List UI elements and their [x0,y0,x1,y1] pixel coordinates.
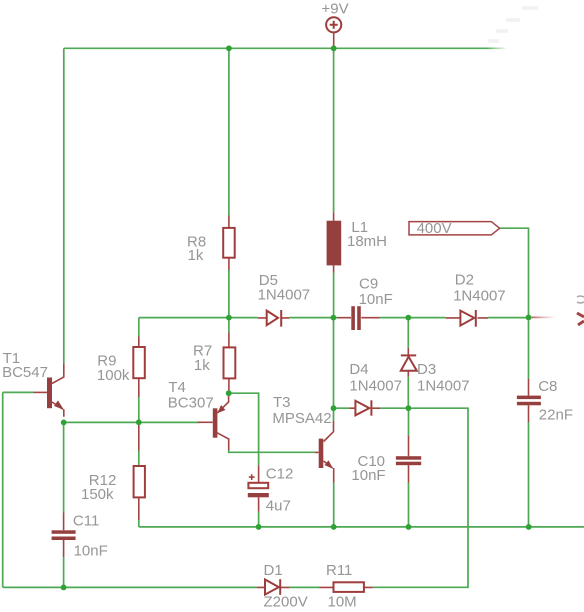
wire J9 to C12 top [229,393,259,465]
wire R7 column [228,318,230,333]
node J2 rail/+9V/L1 [331,45,337,51]
svg-text:D1: D1 [264,562,283,579]
wire D3 bottom [407,377,409,408]
node J11 D4/D3/C10/feedback [406,405,412,411]
node J4 L1/C9/bus [331,315,337,321]
svg-text:10nF: 10nF [74,543,108,560]
svg-text:D4: D4 [349,361,368,378]
node J6 D2/400V/C8 [526,315,532,321]
wire 400V flag to C8 column [500,228,529,317]
svg-text:1N4007: 1N4007 [258,287,311,304]
wire far-left vertical [2,392,4,587]
wire cropped pin marks at right edge [577,296,584,325]
capacitor C8 [517,378,573,423]
node J5 C9/D3 [405,315,411,321]
wire feedback loop J11 right, down, to R11 [373,408,468,587]
capacitor C11 [52,513,108,560]
svg-text:1k: 1k [194,357,210,374]
svg-text:4u7: 4u7 [266,497,291,514]
wire D3 top [407,318,409,348]
resistor R11 [320,562,373,611]
wire bottom rail left [3,586,257,588]
wire D1 to R11 [290,586,320,588]
node J13 C12/lower rail [256,524,262,530]
resistor R12 [81,424,145,521]
svg-text:BC547: BC547 [2,364,48,381]
svg-text:150k: 150k [81,486,114,503]
wire L1 node down to D4 node [333,318,335,409]
transistor T4 [168,379,229,450]
diode D4 [349,361,402,416]
wire top rail [64,8,538,48]
svg-text:10nF: 10nF [359,291,393,308]
wire C10 column [408,408,410,527]
svg-text:T3: T3 [273,394,291,411]
node J16 C8/lower rail [526,524,532,530]
resistor R8 [187,216,235,271]
transistor T3 [272,394,333,483]
capacitor C10 [351,435,421,484]
svg-text:D3: D3 [417,361,436,378]
svg-text:C11: C11 [73,513,99,530]
diode D5 [258,272,311,327]
node J3 R8/R7/bus [226,315,232,321]
flag 400V [409,220,500,237]
wire R12 column bottom corner [138,451,140,527]
svg-text:1N4007: 1N4007 [417,377,470,394]
diode D3 [401,348,470,395]
wire faded stub right of J6 [532,316,557,318]
wire T3 emitter down [333,483,335,527]
svg-text:400V: 400V [417,220,452,237]
wire L1 column bottom [333,273,335,318]
resistor R9 [97,337,145,398]
svg-text:18mH: 18mH [347,233,387,250]
node J12 C11/bottom rail [61,585,67,591]
wire mid horizontal bus y=317.6 [139,317,529,319]
wire lower rail y=526.9 [139,526,584,528]
wire R8 column bottom [228,270,230,318]
svg-text:1N4007: 1N4007 [453,288,506,305]
wire D4 cathode to J11 [380,407,408,409]
svg-text:+9V: +9V [322,0,349,17]
svg-text:100k: 100k [97,367,130,384]
svg-text:R11: R11 [326,562,352,579]
svg-text:22nF: 22nF [539,406,573,423]
node J10 T3 collector/D4 [331,405,337,411]
wire T3 collector stub [333,408,335,421]
inductor L1 [327,212,387,272]
wire C12 bottom [258,512,260,527]
wire R8 column top [228,48,230,215]
wire left vertical (top rail to T1 collector) [63,48,65,363]
wire T4 collector to T3 base y=452.3 [229,450,315,452]
svg-text:Z200V: Z200V [264,594,308,611]
node J15 C10/lower rail [406,524,412,530]
resistor R7 [193,333,235,393]
transistor T1 [2,350,64,417]
wire C8 column [528,317,530,527]
supply +9V [322,0,349,48]
svg-text:D2: D2 [455,272,474,289]
node J8 R9/R12/T4 base [136,419,142,425]
svg-text:MPSA42: MPSA42 [272,410,331,427]
svg-text:C8: C8 [538,378,557,395]
svg-text:10nF: 10nF [351,467,385,484]
svg-text:1k: 1k [188,247,204,264]
wire L1 column top [333,48,335,212]
svg-text:10M: 10M [328,594,357,611]
svg-text:BC307: BC307 [168,395,214,412]
capacitor C9 [337,276,393,330]
diode D1 [257,562,308,611]
wire C11 column [63,422,65,587]
node J9 R7/T4 emitter/C12 [226,390,232,396]
wire R9 column [138,318,140,423]
node J1 rail/R8 [226,45,232,51]
wire T1 base from left vertical [3,391,34,393]
svg-text:C12: C12 [266,466,294,483]
node J7 T1 emitter/C11 [61,420,67,426]
wire emitter row y=422.4 [64,421,199,423]
capacitor C12 (electrolytic) [248,465,294,514]
svg-text:1N4007: 1N4007 [349,377,402,394]
node J14 T3 emitter/lower rail [331,524,337,530]
diode D2 [446,272,506,327]
svg-text:T4: T4 [168,379,186,396]
wire D4 anode [334,407,350,409]
